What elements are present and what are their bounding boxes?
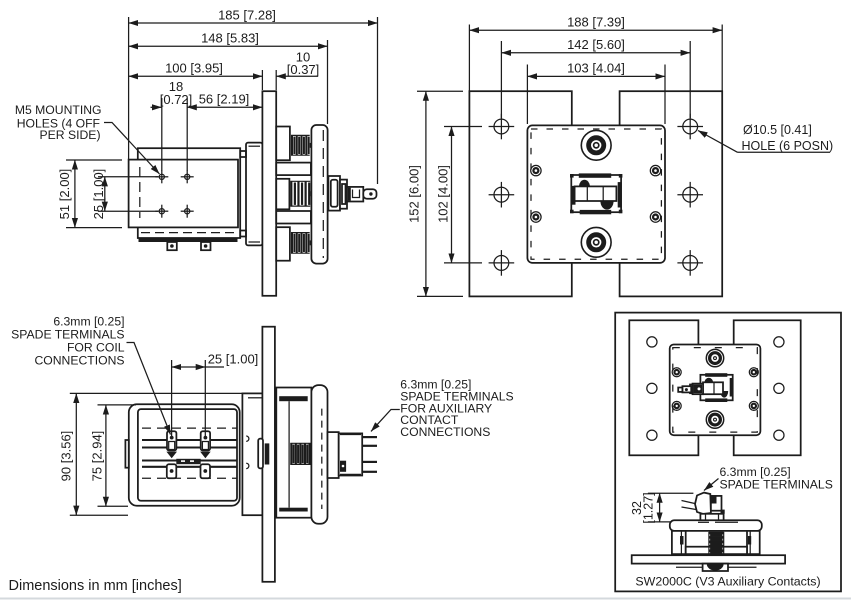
svg-text:CONNECTIONS: CONNECTIONS bbox=[400, 425, 490, 439]
svg-text:[0.72]: [0.72] bbox=[160, 92, 193, 107]
svg-text:148 [5.83]: 148 [5.83] bbox=[201, 31, 259, 46]
svg-text:SPADE TERMINALS: SPADE TERMINALS bbox=[720, 478, 833, 492]
svg-text:25 [1.00]: 25 [1.00] bbox=[91, 169, 106, 220]
svg-text:102 [4.00]: 102 [4.00] bbox=[436, 165, 451, 223]
svg-text:185 [7.28]: 185 [7.28] bbox=[218, 8, 276, 23]
svg-text:51 [2.00]: 51 [2.00] bbox=[57, 169, 72, 220]
svg-text:[0.37]: [0.37] bbox=[287, 62, 320, 77]
svg-text:188 [7.39]: 188 [7.39] bbox=[567, 15, 625, 30]
svg-text:25 [1.00]: 25 [1.00] bbox=[208, 352, 259, 367]
svg-text:56 [2.19]: 56 [2.19] bbox=[199, 92, 250, 107]
svg-text:M5 MOUNTING: M5 MOUNTING bbox=[15, 103, 102, 117]
svg-text:152 [6.00]: 152 [6.00] bbox=[407, 165, 422, 223]
svg-text:75 [2.94]: 75 [2.94] bbox=[90, 431, 105, 482]
svg-text:FOR COIL: FOR COIL bbox=[67, 341, 125, 355]
svg-text:142 [5.60]: 142 [5.60] bbox=[567, 37, 625, 52]
svg-text:SW2000C (V3 Auxiliary Contacts: SW2000C (V3 Auxiliary Contacts) bbox=[635, 575, 820, 589]
svg-text:[1.27]: [1.27] bbox=[642, 492, 656, 523]
svg-text:Dimensions in mm [inches]: Dimensions in mm [inches] bbox=[9, 578, 182, 594]
svg-text:PER SIDE): PER SIDE) bbox=[40, 128, 101, 142]
svg-text:90 [3.56]: 90 [3.56] bbox=[59, 431, 74, 482]
svg-text:Ø10.5 [0.41]: Ø10.5 [0.41] bbox=[743, 123, 812, 137]
svg-text:CONNECTIONS: CONNECTIONS bbox=[34, 354, 124, 368]
svg-text:103 [4.04]: 103 [4.04] bbox=[567, 61, 625, 76]
svg-text:6.3mm [0.25]: 6.3mm [0.25] bbox=[53, 315, 124, 329]
svg-text:SPADE TERMINALS: SPADE TERMINALS bbox=[11, 328, 124, 342]
svg-text:HOLE (6 POSN): HOLE (6 POSN) bbox=[742, 139, 834, 153]
svg-text:100 [3.95]: 100 [3.95] bbox=[165, 61, 223, 76]
